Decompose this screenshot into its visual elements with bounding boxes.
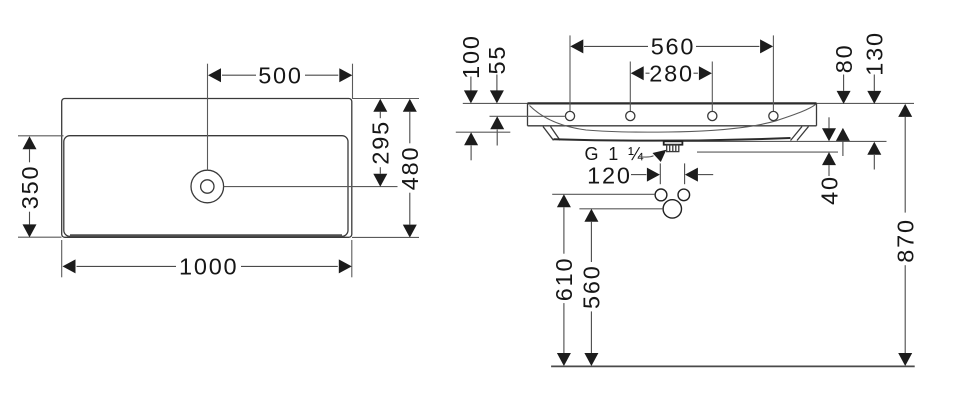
svg-text:130: 130	[862, 31, 888, 76]
svg-text:80: 80	[831, 44, 857, 74]
svg-text:560: 560	[651, 34, 696, 60]
svg-text:350: 350	[17, 165, 43, 210]
svg-text:120: 120	[587, 163, 632, 189]
svg-text:280: 280	[649, 61, 694, 87]
svg-text:295: 295	[368, 120, 394, 165]
svg-text:55: 55	[484, 45, 510, 75]
svg-text:870: 870	[893, 218, 919, 263]
svg-text:100: 100	[458, 34, 484, 79]
svg-text:1000: 1000	[179, 254, 238, 280]
svg-text:40: 40	[816, 175, 842, 205]
svg-text:560: 560	[579, 264, 605, 309]
svg-text:500: 500	[258, 63, 303, 89]
svg-text:480: 480	[397, 146, 423, 191]
svg-text:610: 610	[551, 257, 577, 302]
svg-text:G 1 ¼: G 1 ¼	[585, 144, 646, 164]
